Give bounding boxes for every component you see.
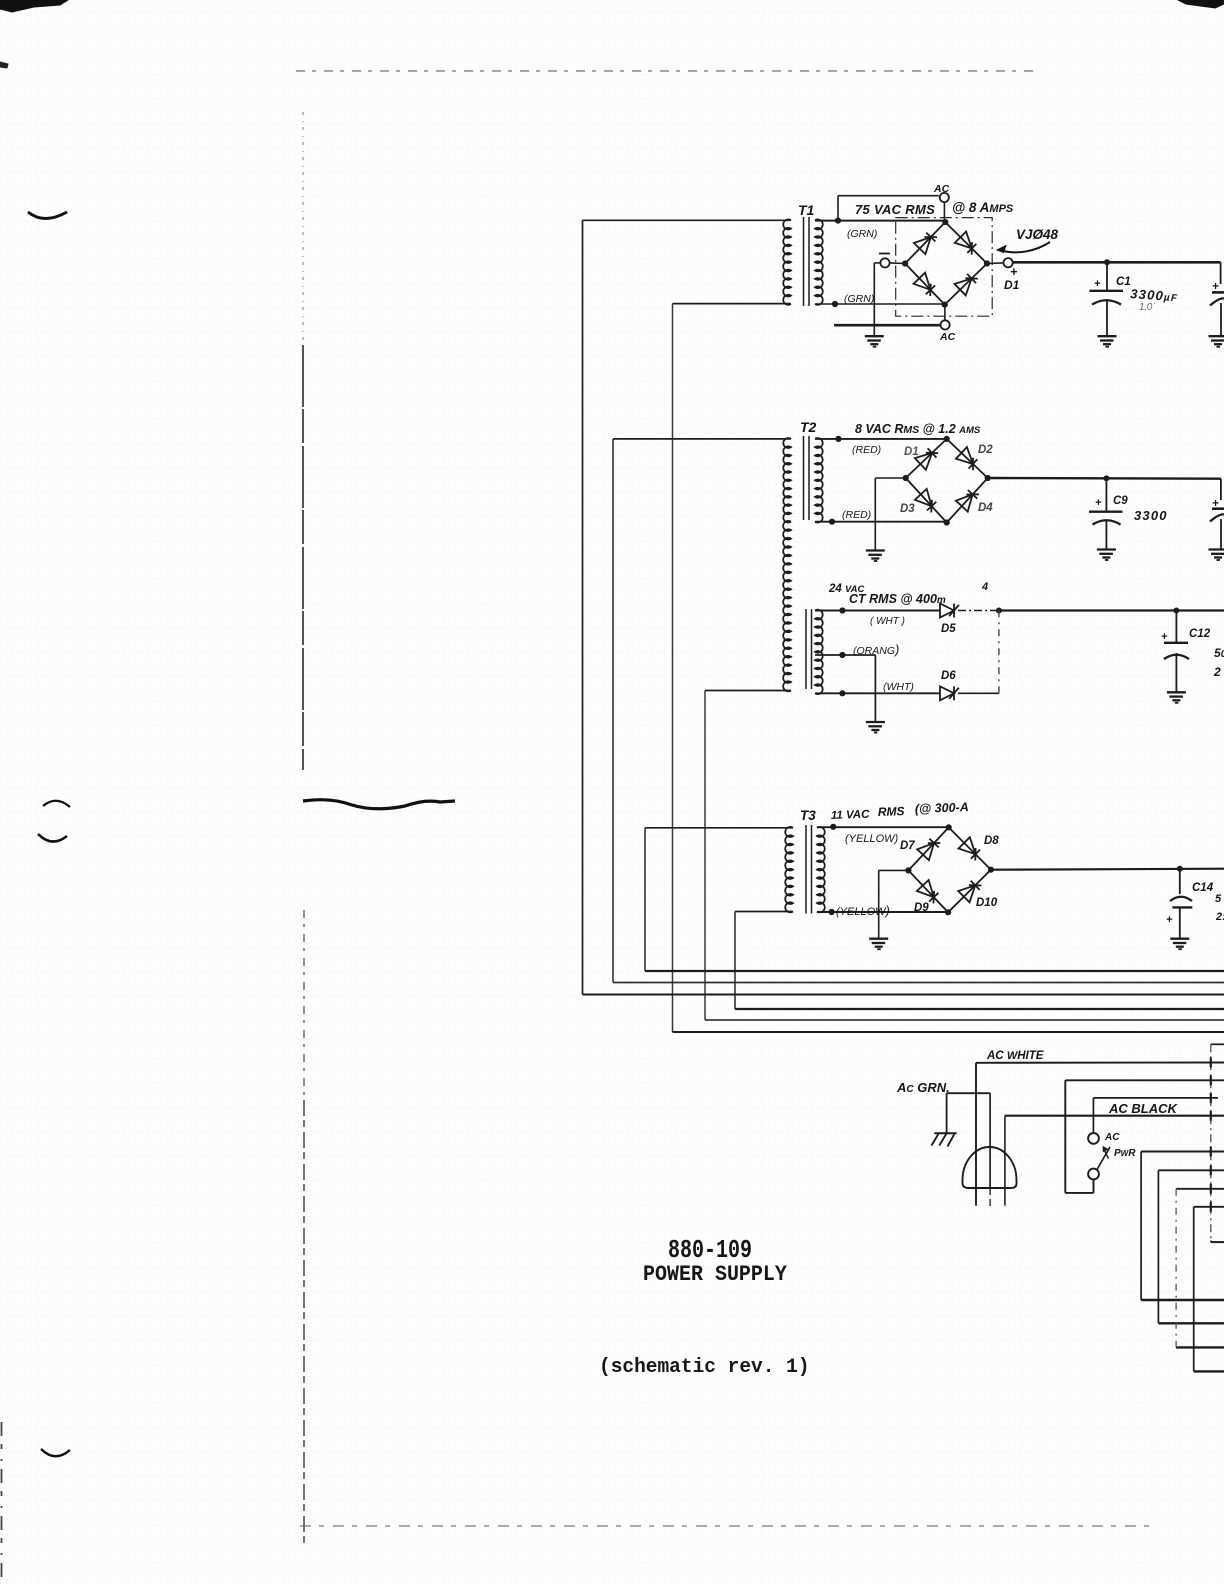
diode bridge VJ048 (D1): dash-dot outline box (896, 218, 993, 317)
wire: D6 output then up to node (dashed) (958, 692, 999, 694)
wire: T2 primary bottom horizontal (705, 690, 791, 692)
svg-text:(@ 300-A: (@ 300-A (915, 800, 969, 816)
wire: T1 primary top horizontal (583, 219, 792, 221)
svg-text:D10: D10 (976, 897, 998, 909)
svg-text:CT RMS @ 400m: CT RMS @ 400m (849, 592, 946, 606)
wire: T3 secondary bottom to bridge 3 bottom (817, 911, 948, 913)
terminal circle: AC bottom, bridge 1 (941, 320, 950, 329)
diode D5 (940, 604, 954, 618)
capacitor C1 3300uF (1106, 262, 1108, 290)
wire: minus circle stub to left vertex (890, 262, 905, 265)
bridge 1 diode bottom-right (955, 279, 972, 296)
wire bracket 3 (dashed vertical) (1176, 1188, 1224, 1190)
svg-text:C1: C1 (1116, 276, 1131, 288)
svg-text:AC GRN.: AC GRN. (896, 1080, 950, 1095)
ground below C9 (1097, 548, 1116, 550)
bridge 3 vertex junction dots (946, 824, 952, 830)
diode D10 (bridge 3 bottom-right) (958, 885, 975, 902)
wire: AC BLACK line (1005, 1115, 1224, 1117)
scan artifact: left page-fold dashed vertical line (302, 112, 304, 345)
svg-text:D1: D1 (1004, 278, 1020, 292)
bus wire 2 (from T2 primary top) y=982.5 (613, 982, 1224, 984)
wire bracket 4 (1194, 1206, 1224, 1208)
AC plug body (dome) (963, 1147, 1017, 1188)
svg-text:(WHT): (WHT) (883, 681, 914, 693)
svg-text:AC: AC (1104, 1132, 1120, 1143)
wire: T1 primary top feeder (vertical x=583) (582, 220, 584, 994)
svg-text:(ORANG): (ORANG) (853, 642, 899, 657)
bridge 1 diode bottom-left (914, 273, 931, 290)
wire: T3 primary top feeder (vertical x=645) (644, 828, 646, 971)
bridge 3 diamond wires (908, 827, 991, 912)
terminal circle: DC plus, bridge 1 (1004, 258, 1013, 267)
scan artifact: binder hole crescent bottom-left (41, 1449, 70, 1456)
node: T1 secondary top junction (835, 218, 841, 224)
svg-text:1‚0ˈ: 1‚0ˈ (1139, 302, 1156, 313)
node: C9 junction (1103, 475, 1109, 481)
ground below C1 (1098, 335, 1117, 337)
junction ticks on boundary vertical (1210, 1058, 1212, 1068)
diode D7 (bridge 3 top-left) (917, 843, 934, 860)
diode D1 (bridge 2 top-left) (915, 453, 932, 470)
scan artifact: top-right corner mark (1178, 0, 1224, 8)
capacitor (partial, right edge) row 2 (1220, 479, 1222, 500)
svg-text:T1: T1 (798, 202, 815, 218)
wire: AC GRN to chassis ground and middle prong (947, 1092, 991, 1094)
svg-text:8 VAC RMS @ 1.2 AMS: 8 VAC RMS @ 1.2 AMS (855, 422, 981, 436)
wire: right vertex to plus circle (987, 262, 1003, 265)
bus wire 4 (from T3 primary bottom) y=1009 (735, 1008, 1224, 1010)
svg-text:+: + (1094, 278, 1101, 290)
svg-text:(YELLOW): (YELLOW) (836, 903, 890, 918)
svg-text:@ 8 AMPS: @ 8 AMPS (952, 200, 1014, 215)
svg-text:AC WHITE: AC WHITE (986, 1050, 1044, 1062)
svg-text:C12: C12 (1189, 628, 1211, 640)
terminal circle: AC top, bridge 1 (940, 193, 949, 202)
bus wire 3 (from T1 primary top) y=994.5 (583, 994, 1224, 996)
svg-text:2:: 2: (1215, 911, 1224, 923)
wire: T1 primary bottom horizontal (673, 303, 792, 305)
node: C14 junction (1177, 866, 1183, 872)
capacitor C9 3300 (1105, 478, 1107, 511)
bridge 1 diode top-left (914, 237, 931, 254)
wire: black prong drop (1004, 1116, 1006, 1206)
wire: line 2 (switched side) (1065, 1079, 1224, 1081)
wire: T1 secondary bottom (GRN) to bridge bottom vertex (815, 303, 945, 305)
svg-text:11 VAC: 11 VAC (831, 809, 871, 822)
bridge 2 diamond wires (906, 439, 988, 523)
svg-text:AC: AC (933, 183, 950, 195)
wire: AC test loop above bridge 1 (837, 196, 839, 221)
wire bracket 2 (1158, 1169, 1224, 1171)
wire: CT top tap (WHT) to diode D5 (815, 610, 940, 612)
wire: T3 secondary top to bridge 3 (817, 826, 949, 828)
scan artifact: binder hole crescents middle-left (43, 801, 70, 807)
svg-text:T2: T2 (800, 419, 817, 435)
wire: T2 primary top horizontal (613, 438, 791, 440)
capacitor C12 (1173, 608, 1179, 614)
wire: T2 secondary-1 bottom to bridge 2 bottom (815, 521, 947, 523)
wire: main +DC output row 1 (1013, 261, 1220, 264)
ground: bridge 1 minus (865, 335, 884, 337)
wire: T2 secondary-1 top to bridge 2 (815, 438, 947, 440)
wire: bold AC-return bus under bridge 1 (834, 324, 940, 327)
bridge 2 vertex junction dots (944, 436, 950, 442)
scan artifact: top-left corner mark (0, 0, 68, 12)
wire: AC circle to bridge top vertex (943, 203, 945, 222)
ground: CT center tap (866, 721, 885, 723)
wire bracket 1 (outermost return loop) (1141, 1151, 1224, 1153)
scan artifact: bottom dashed edge line (300, 1525, 1152, 1527)
svg-text:D2: D2 (978, 444, 993, 456)
terminal circle: DC minus, bridge 1 (880, 258, 889, 267)
wire: bridge1 minus vertical to ground (874, 262, 880, 264)
scan artifact: binder hole crescent upper-left (28, 212, 67, 219)
switch AC PWR (1088, 1133, 1099, 1144)
bus wire 1 (from T3 primary top) y=971 (645, 970, 1224, 972)
wire: middle prong (green) (989, 1093, 991, 1188)
wire: main +DC output row 2 (988, 477, 1221, 480)
ground below C12 (1167, 691, 1186, 693)
svg-text:POWER SUPPLY: POWER SUPPLY (643, 1262, 787, 1287)
bus wire 6 (from T1 primary bottom) y=1032 (673, 1031, 1224, 1033)
svg-text:880-109: 880-109 (668, 1236, 752, 1265)
diode D6 (940, 686, 954, 700)
svg-text:( WHT ): ( WHT ) (870, 616, 905, 627)
bus wire 5 (from T2 primary bottom) y=1020 (705, 1019, 1224, 1021)
T2 lower secondary winding (24VAC CT) (805, 609, 807, 689)
svg-text:(schematic rev. 1): (schematic rev. 1) (599, 1356, 810, 1380)
svg-text:+: + (1161, 631, 1168, 643)
wire: T3 primary bottom horizontal (735, 911, 793, 913)
bridge 1 diamond wires (905, 222, 987, 305)
wire: line 3 (to switch top) (1093, 1097, 1218, 1099)
wire: T2 primary bottom feeder (vertical x=705) (704, 691, 706, 1021)
svg-text:5: 5 (1215, 893, 1222, 905)
bridge 1 diode top-right (955, 232, 972, 249)
wire: D5 output to node (958, 610, 999, 612)
svg-text:+: + (1095, 497, 1102, 509)
scan artifact: top dashed edge line (296, 70, 1040, 72)
wire: T2 primary top feeder (vertical x=613) (612, 439, 614, 983)
wire: main output row 3 (24V) (999, 609, 1224, 611)
wire: T1 secondary top (to bridge AC top) (815, 220, 945, 222)
svg-text:D4: D4 (978, 502, 993, 514)
svg-text:75 VAC RMS: 75 VAC RMS (855, 202, 935, 217)
ground: bridge 3 minus (869, 938, 888, 940)
chassis ground (AC GRN) (934, 1132, 956, 1134)
svg-text:(RED): (RED) (852, 444, 881, 456)
svg-text:D5: D5 (941, 623, 956, 635)
scan artifact: hand squiggle line left of schematic (303, 800, 455, 809)
svg-text:PWR: PWR (1114, 1148, 1136, 1159)
wire: T3 primary top horizontal (645, 827, 793, 829)
dash-dot boundary vertical x=1211 with stubs (1211, 1043, 1224, 1045)
svg-text:50: 50 (1214, 646, 1224, 660)
svg-text:(GRN): (GRN) (847, 228, 877, 240)
wire: AC WHITE line (976, 1062, 1224, 1064)
diode D4 (bridge 2 bottom-right) (956, 494, 973, 511)
bridge 1 vertex junction dots (942, 219, 948, 225)
svg-text:D8: D8 (984, 835, 999, 847)
wire: main output row 4 (11V) (991, 869, 1224, 870)
diode D2 (bridge 2 top-right) (956, 447, 973, 464)
svg-text:(RED): (RED) (842, 509, 871, 521)
svg-text:(YELLOW): (YELLOW) (845, 833, 899, 845)
wire: T3 primary bottom feeder (vertical x=735) (734, 912, 736, 1010)
wire: bridge2 minus to ground (875, 477, 905, 479)
svg-text:3300: 3300 (1134, 508, 1168, 523)
svg-text:AC: AC (939, 331, 956, 343)
diode D9 (bridge 3 bottom-left) (917, 880, 934, 897)
svg-text:+: + (1166, 914, 1173, 926)
diode D8 (bridge 3 top-right) (959, 837, 976, 854)
svg-text:VJØ48: VJØ48 (1016, 227, 1059, 242)
wire: bridge1 bottom vertex to AC circle (944, 305, 946, 320)
svg-text:C9: C9 (1113, 495, 1128, 507)
svg-text:AC BLACK: AC BLACK (1108, 1101, 1178, 1116)
svg-text:RMS: RMS (878, 804, 905, 819)
wire: T1 primary bottom feeder (vertical x=672.5) (672, 304, 674, 1032)
wire: CT center tap (ORANG) to ground (815, 654, 875, 656)
svg-text:+: + (1010, 265, 1018, 279)
ground: bridge 2 minus (866, 549, 885, 551)
node: D5/D6 output junction (996, 608, 1002, 614)
capacitor (partial, right edge) row 1 (1220, 262, 1222, 284)
svg-text:(GRN): (GRN) (844, 293, 874, 305)
scan artifact: left edge bottom streak (1, 1422, 3, 1584)
svg-text:4: 4 (981, 581, 988, 593)
wire: bridge3 minus to ground (879, 869, 909, 871)
diode D3 (bridge 2 bottom-left) (915, 489, 932, 506)
ground below C14 (1170, 938, 1189, 940)
svg-text:2: 2 (1213, 665, 1221, 679)
svg-text:D3: D3 (900, 503, 915, 515)
svg-text:D1: D1 (904, 446, 919, 458)
svg-text:C14: C14 (1192, 882, 1214, 894)
svg-text:T3: T3 (800, 808, 816, 823)
wire: AC white drop to plug prong (975, 1063, 977, 1206)
wire: switch bottom L-connection (1065, 1192, 1093, 1194)
svg-text:D6: D6 (941, 670, 956, 682)
wire: CT bottom tap (WHT) to diode D6 (815, 692, 940, 694)
switch blade (1097, 1147, 1110, 1170)
node: C1 junction (1104, 259, 1110, 265)
capacitor C14 (reversed polarity drawing) (1179, 869, 1181, 894)
svg-text:D7: D7 (900, 840, 915, 852)
